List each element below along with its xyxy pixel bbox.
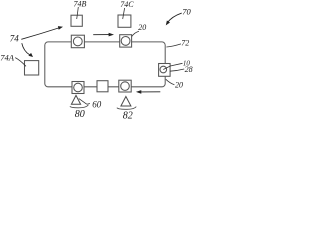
svg-text:28: 28: [185, 65, 193, 74]
svg-text:80: 80: [75, 109, 85, 120]
sensor box 74B: [71, 15, 82, 26]
leader 74A text to box: [15, 58, 26, 67]
leader 74B text to box: [77, 7, 79, 19]
pump 20 (top-right): [120, 35, 132, 47]
svg-text:70: 70: [182, 6, 191, 16]
svg-text:72: 72: [181, 39, 189, 48]
svg-text:20: 20: [175, 80, 183, 89]
brace under 80: [70, 105, 88, 108]
mount triangle (under pump 82): [121, 97, 131, 107]
leader 74C text to box: [123, 8, 125, 19]
brace under 82: [117, 107, 136, 110]
svg-text:74C: 74C: [120, 0, 134, 9]
empty box (bottom-middle): [97, 81, 108, 92]
flow arrow (bottom, pointing left): [136, 90, 160, 94]
svg-text:74A: 74A: [0, 52, 15, 62]
mount triangle (under pump 80): [71, 95, 80, 104]
pump 20 (bottom-right, item 82): [119, 80, 131, 92]
leader 60 to triangle: [79, 99, 90, 105]
pump 20 (bottom-left, item 80): [72, 82, 84, 94]
sensor box 74C: [118, 15, 131, 27]
component box 10/28 (right side, with gauge circle): [159, 64, 171, 77]
svg-text:74B: 74B: [74, 0, 87, 9]
sensor box 74A: [25, 61, 39, 75]
svg-text:82: 82: [123, 111, 133, 120]
leader 28 to box: [170, 69, 184, 71]
leader 20 (top) to pump: [132, 31, 139, 36]
svg-text:60: 60: [92, 100, 102, 110]
leader 20 (bottom right) to pipe: [166, 79, 175, 85]
leader arrow from 74 up to sensors row: [21, 26, 63, 39]
leader 72 to pipe corner: [166, 44, 181, 47]
leader arrow from 70 to loop: [166, 13, 182, 25]
flow arrow (top, pointing right): [93, 33, 114, 37]
leader arrow from 74 down to 74A: [22, 43, 33, 57]
gauge needle / leader to 10: [163, 63, 182, 69]
svg-text:20: 20: [138, 23, 146, 32]
pump 20 (top-left): [71, 35, 84, 48]
wire: coolant loop pipe 72: [45, 42, 165, 87]
svg-text:74: 74: [10, 33, 20, 43]
